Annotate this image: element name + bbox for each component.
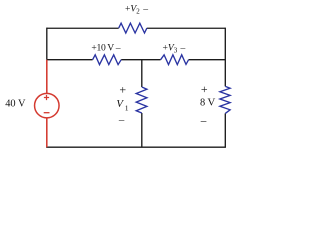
resistor 8V (right) <box>220 86 230 113</box>
voltage source 40V <box>35 93 60 118</box>
svg-text:+V3 –: +V3 – <box>163 43 186 55</box>
wire: middle branch vertical <box>141 60 143 148</box>
svg-text:1: 1 <box>125 103 129 112</box>
wire: middle rail <box>47 59 226 61</box>
svg-text:40 V: 40 V <box>5 99 26 110</box>
resistor V2 (top) <box>119 23 147 33</box>
svg-text:+10 V –: +10 V – <box>91 42 120 53</box>
svg-text:+: + <box>119 82 126 96</box>
svg-text:+V2 –: +V2 – <box>125 3 148 15</box>
wire: right vertical <box>224 28 226 148</box>
wire: left vertical (top black segment) <box>46 28 48 60</box>
resistor V1 (middle branch) <box>136 87 147 113</box>
svg-text:–: – <box>118 114 125 126</box>
resistor V3 (middle right) <box>161 55 189 65</box>
svg-text:–: – <box>200 115 207 127</box>
svg-text:8V: 8V <box>200 97 215 109</box>
wire: left vertical red leads of source <box>46 60 48 148</box>
wire: bottom rail <box>46 146 226 148</box>
label + V1 - (middle branch) <box>116 82 128 126</box>
wire: top rail <box>47 27 226 29</box>
resistor 10V (middle left) <box>93 55 122 65</box>
label + 8V - (right) <box>200 82 216 127</box>
svg-text:V: V <box>116 98 124 110</box>
svg-text:+: + <box>201 82 208 96</box>
